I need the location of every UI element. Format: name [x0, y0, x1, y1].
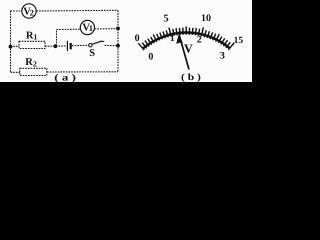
meter ticks: [138, 27, 234, 51]
meter needle arrowhead: [176, 34, 183, 44]
svg-text:2: 2: [33, 60, 37, 69]
svg-text:2: 2: [197, 35, 202, 46]
svg-text:1: 1: [33, 33, 37, 42]
svg-text:15: 15: [234, 36, 244, 46]
voltmeter V2 circle: [22, 4, 36, 18]
wire bottom right of R2: [47, 71, 118, 73]
node junction right mid: [116, 44, 120, 48]
svg-text:5: 5: [163, 13, 168, 24]
svg-text:10: 10: [201, 13, 211, 24]
svg-text:3: 3: [220, 51, 225, 62]
svg-text:( b ): ( b ): [181, 73, 201, 83]
voltmeter V1 circle: [80, 20, 94, 34]
wire V1 left: [57, 28, 81, 30]
wire R1 to node: [45, 45, 67, 47]
resistor R1 box: [19, 41, 45, 48]
wire V1 branch vertical: [56, 30, 58, 47]
svg-text:2: 2: [30, 7, 34, 17]
svg-text:1: 1: [170, 33, 175, 44]
svg-text:0: 0: [135, 33, 140, 44]
wire left vertical: [10, 11, 12, 73]
wire switch to right: [105, 44, 119, 46]
node junction left: [9, 45, 13, 49]
switch S lever tip tick: [101, 40, 104, 42]
battery long plate: [66, 41, 68, 51]
switch S circle: [89, 44, 92, 47]
meter scale arc: [143, 32, 230, 48]
svg-text:S: S: [89, 48, 95, 59]
svg-text:( a ): ( a ): [54, 73, 76, 83]
wire top right of V2: [36, 9, 118, 12]
wire top left of V2: [11, 10, 22, 12]
resistor R2 box: [20, 68, 47, 75]
switch S lever: [92, 41, 102, 44]
wire bottom left of R2: [11, 71, 20, 73]
battery short plate: [70, 43, 72, 49]
wire right vertical: [117, 10, 119, 72]
node junction right top: [116, 27, 120, 31]
wire main left: [11, 45, 20, 47]
node junction mid: [54, 44, 58, 48]
svg-text:0: 0: [148, 52, 153, 63]
svg-text:1: 1: [89, 23, 93, 33]
meter needle shaft: [179, 35, 189, 70]
wire battery to switch: [72, 44, 89, 46]
wire V1 right: [95, 28, 118, 30]
